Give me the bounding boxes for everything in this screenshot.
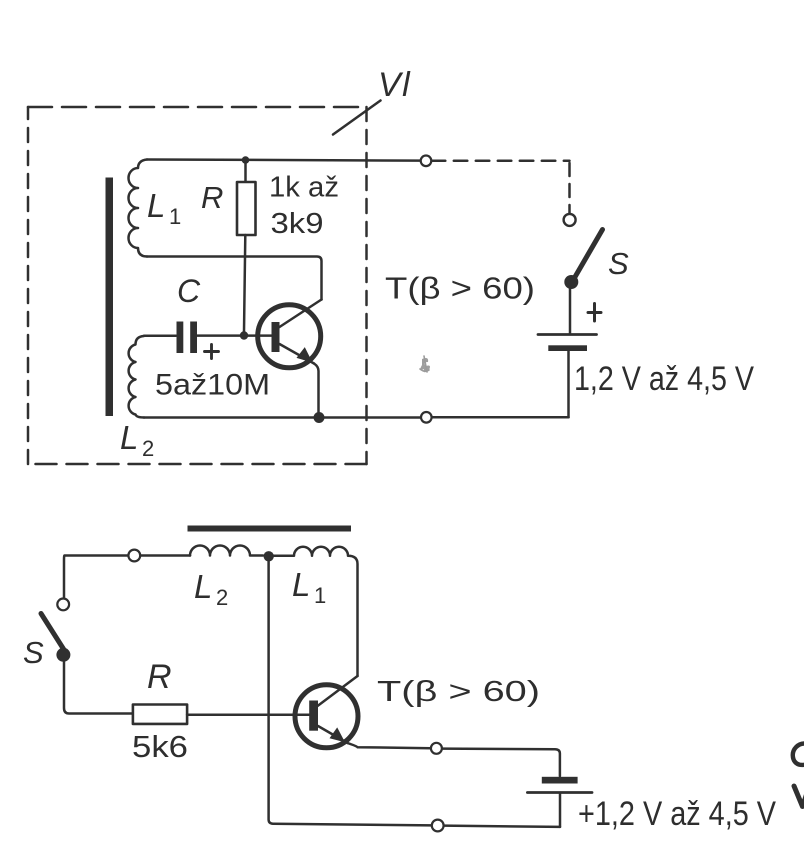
resistor R (top circuit)	[237, 182, 256, 235]
battery B1 long plate	[538, 333, 597, 336]
wire: switch to battery	[569, 288, 572, 333]
transistor T1 emitter arrowhead	[297, 347, 313, 363]
svg-text:Vl: Vl	[378, 66, 411, 104]
terminal circle switch (bottom)	[57, 599, 69, 611]
svg-text:L: L	[147, 187, 165, 224]
switch S blade (bottom)	[41, 614, 64, 650]
terminal circle emitter rail	[431, 743, 442, 754]
wire: resistor to base	[187, 714, 309, 717]
ferrite rod antenna (bottom circuit)	[188, 526, 352, 532]
inductor L2 (bottom circuit)	[190, 546, 263, 556]
wire: left rail to L2	[64, 556, 190, 599]
svg-text:S: S	[23, 635, 44, 670]
leader line to label Vl	[333, 101, 381, 135]
wire: L2 top to capacitor	[144, 335, 176, 338]
transistor T1 collector stroke	[280, 300, 322, 328]
resistor R (bottom circuit)	[133, 705, 187, 724]
wire: emitter to right rail	[348, 743, 560, 776]
transistor T1 emitter stroke	[280, 344, 315, 364]
terminal circle top	[421, 156, 432, 167]
wire: battery bottom to bottom rail	[559, 794, 562, 827]
value 1k az 3k9	[269, 172, 339, 241]
switch S blade (top circuit)	[574, 230, 603, 280]
svg-text:T(β > 60): T(β > 60)	[377, 676, 540, 708]
label L2 (bottom)	[194, 568, 228, 610]
svg-text:L: L	[292, 566, 310, 603]
polarity plus of capacitor	[205, 345, 219, 359]
wire: resistor bottom lead down to base node	[244, 235, 245, 332]
junction node at resistor top	[242, 156, 250, 164]
dashed wire: top terminal to switch	[432, 160, 570, 163]
label L2 (top)	[120, 419, 154, 461]
battery B1 short thick plate	[548, 345, 587, 351]
junction node between L2 and L1	[264, 551, 274, 561]
dashed enclosure box (top oscillator unit)	[28, 107, 367, 464]
switch terminal circle	[564, 214, 576, 226]
battery B2 short thick plate	[542, 777, 578, 784]
wire: switch down and right to resistor	[64, 660, 133, 714]
svg-text:1: 1	[169, 204, 181, 229]
capacitor C plates	[177, 322, 198, 354]
inductor L1 (bottom circuit)	[274, 547, 358, 676]
inductor L2 (top circuit)	[129, 336, 144, 418]
junction node bottom rail	[314, 412, 325, 423]
inductor L1 (top circuit)	[129, 160, 148, 257]
terminal circle bottom rail (bottom circuit)	[432, 820, 444, 832]
svg-text:3k9: 3k9	[271, 208, 324, 240]
transistor T2 emitter stroke	[318, 726, 348, 743]
terminal circle left (bottom circuit)	[128, 550, 140, 562]
battery plus sign	[588, 304, 601, 322]
transistor T1 circle	[258, 305, 321, 368]
svg-text:+1,2 V až 4,5 V: +1,2 V až 4,5 V	[578, 795, 776, 833]
wire: battery to bottom rail	[567, 351, 570, 417]
svg-text:C: C	[177, 273, 201, 309]
svg-text:1,2 V až 4,5 V: 1,2 V až 4,5 V	[574, 360, 754, 398]
wire: L1 bottom to collector corner	[147, 257, 322, 300]
dashed wire: corner down to switch terminal	[568, 163, 571, 215]
switch S contact dot (bottom)	[56, 648, 70, 662]
svg-text:R: R	[201, 180, 223, 215]
wire: bottom rail from L2 to battery	[144, 416, 569, 419]
wire: resistor top lead	[244, 160, 247, 182]
transistor T2 circle	[295, 685, 358, 748]
label L1	[147, 187, 181, 229]
transistor T2 collector stroke	[318, 676, 358, 706]
partial glyph O at right edge	[793, 743, 804, 764]
partial glyph V at right edge	[794, 781, 804, 807]
scan smudge artifact	[420, 356, 430, 372]
ferrite rod antenna (top circuit)	[106, 178, 114, 417]
svg-text:1k až: 1k až	[269, 172, 339, 204]
wire: emitter down to bottom rail	[314, 364, 319, 413]
junction node at base	[240, 331, 248, 339]
transistor T2 emitter arrowhead	[330, 727, 346, 742]
svg-text:S: S	[608, 246, 629, 281]
svg-text:L: L	[120, 419, 138, 456]
wire: junction L2/L1 down to bottom rail	[269, 557, 560, 827]
svg-text:L: L	[194, 568, 212, 605]
svg-text:T(β > 60): T(β > 60)	[385, 272, 535, 306]
svg-text:R: R	[147, 658, 172, 696]
svg-text:1: 1	[314, 583, 326, 608]
label L1 (bottom)	[292, 566, 326, 608]
svg-text:5k6: 5k6	[132, 729, 188, 764]
transistor T2 base bar	[309, 701, 318, 731]
svg-text:2: 2	[216, 585, 228, 610]
switch S contact dot	[564, 275, 578, 289]
terminal circle bottom	[421, 412, 432, 423]
svg-text:2: 2	[142, 436, 154, 461]
wire: capacitor to base bar	[197, 334, 272, 337]
battery B2 long plate	[527, 791, 592, 794]
svg-text:5až10M: 5až10M	[155, 369, 270, 402]
wire: top rail from L1 to terminal	[147, 160, 421, 161]
transistor T1 base bar	[272, 322, 280, 352]
